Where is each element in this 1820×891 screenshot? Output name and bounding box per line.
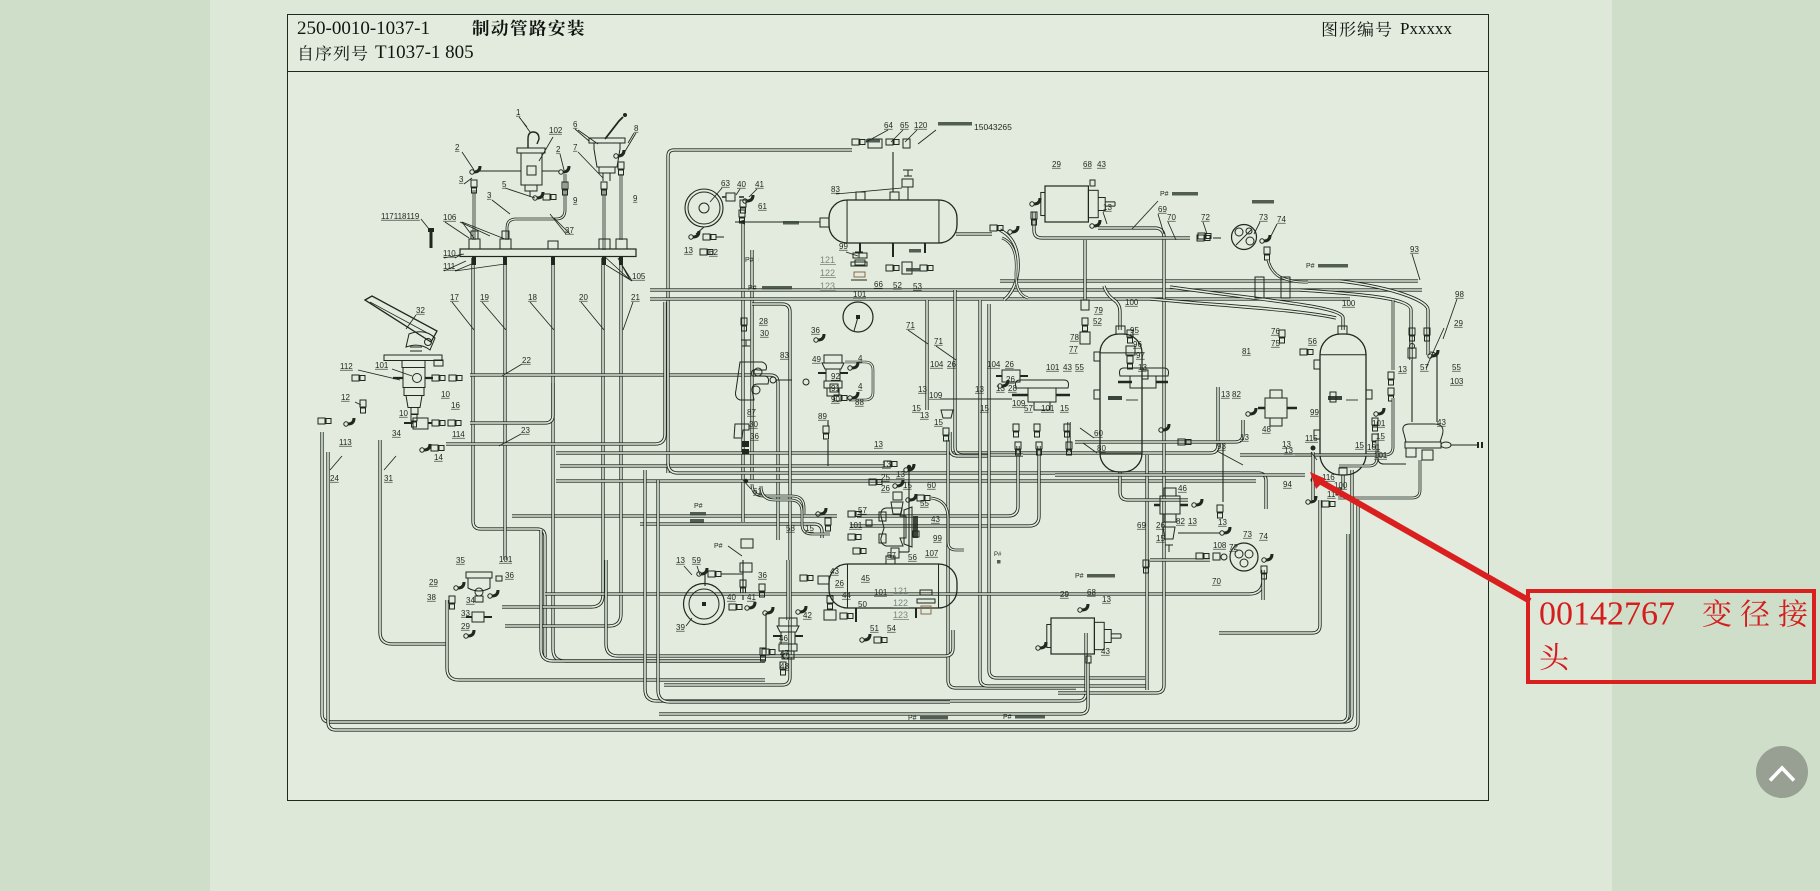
pipe low h2 bbox=[541, 530, 765, 661]
protection valve 92 cluster bbox=[824, 355, 842, 363]
pipe right h3 bbox=[650, 297, 1350, 300]
leader 112 101 bbox=[355, 369, 412, 405]
elbow 13 82 bbox=[1250, 408, 1256, 414]
pipe 108 runs bbox=[1150, 558, 1210, 561]
foot brake valve 32 pedal bbox=[365, 296, 437, 342]
pipe 23 run bbox=[446, 302, 665, 444]
tee valve 26 bbox=[891, 502, 903, 514]
pipe 72 h bbox=[1197, 235, 1204, 241]
pipe below valve 55 bbox=[1338, 460, 1420, 498]
hand valve 6 body bbox=[589, 138, 625, 143]
vertical tank B bbox=[1320, 334, 1366, 475]
vertical tank A bbox=[1100, 334, 1142, 472]
pipe 71b bbox=[955, 290, 1023, 455]
valve 34 bbox=[413, 418, 428, 429]
fitting 8 bbox=[618, 150, 624, 156]
annotation texts bbox=[938, 122, 972, 126]
manifold stubs 111 bbox=[474, 257, 621, 265]
fitting 38 bbox=[449, 596, 455, 603]
content column background bbox=[210, 0, 1612, 891]
pipe 60 curve bbox=[931, 498, 964, 550]
fitting 51 54 bbox=[864, 634, 870, 640]
fitting 43 top bbox=[1090, 180, 1095, 186]
title text 制动管路安装 bbox=[473, 20, 585, 37]
fitting 74 low bbox=[1266, 554, 1272, 560]
gauge 39 stub bbox=[704, 574, 706, 586]
items 121 122 123 low bbox=[920, 590, 932, 595]
fitting 64 65 120 bbox=[852, 139, 859, 145]
pipe bottom pair bbox=[330, 534, 1348, 722]
gauge 73 low bbox=[1230, 543, 1258, 571]
pipe low h4 bbox=[645, 470, 1086, 701]
fitting 74 top bbox=[1264, 235, 1270, 241]
figure label 图形编号 bbox=[1323, 21, 1391, 37]
label leader lines bbox=[330, 117, 1457, 626]
fitting 28 30 top bbox=[741, 318, 747, 325]
pipe tankA bottom out bbox=[1120, 472, 1188, 500]
manifold bar 110 bbox=[460, 249, 636, 257]
fitting 16 bbox=[432, 420, 439, 426]
fitting 40 41 bbox=[726, 193, 735, 201]
tank A label bbox=[1108, 396, 1122, 400]
items 121 122 123 bbox=[855, 252, 863, 258]
tank top ports bbox=[856, 192, 865, 200]
pipe tankB top bbox=[1170, 287, 1343, 330]
pipe 70 run bbox=[545, 580, 1263, 594]
elbow 14 bbox=[424, 444, 430, 450]
pipe 19 drop bbox=[503, 258, 506, 560]
pipe 93 right bbox=[1240, 453, 1385, 456]
foot brake valve 32 body bbox=[384, 355, 442, 361]
pipe from hand valve 3 down-left bbox=[473, 190, 476, 240]
pipe right h1 bbox=[1000, 279, 1418, 282]
fitting 4b bbox=[852, 392, 858, 398]
relay valve cluster mid bbox=[1120, 368, 1169, 376]
fitting 89 bbox=[823, 426, 829, 433]
fitting 113 bbox=[348, 418, 354, 424]
fitting 101 43 bbox=[866, 520, 872, 526]
gauge 101 stub bbox=[854, 317, 858, 331]
pipes cluster left curves bbox=[752, 484, 804, 514]
tank 50 left port bbox=[818, 576, 829, 584]
fitting row 25 26 bbox=[869, 479, 876, 485]
fitting 56 mid bbox=[1300, 349, 1307, 355]
manifold fitting d bbox=[599, 239, 610, 249]
hill holder valve 55 bbox=[881, 508, 906, 546]
fitting 58 15 bbox=[825, 518, 831, 525]
red annotation leader line bbox=[1316, 479, 1530, 601]
fitting 95 96 97 bbox=[1127, 330, 1133, 337]
fitting 114 bbox=[448, 420, 455, 426]
relay valve cluster right bbox=[1403, 424, 1443, 442]
pipe 71a bbox=[925, 300, 928, 410]
fitting 2 left bbox=[474, 166, 480, 172]
pipe 9b bbox=[620, 174, 623, 240]
fitting row 13 upper bbox=[884, 461, 891, 467]
tank bottom stubs bbox=[860, 243, 925, 257]
tank B label bbox=[1328, 396, 1342, 400]
red annotation text CJK line2 bbox=[1540, 643, 1567, 670]
gauge 73 top bbox=[1232, 225, 1257, 250]
pipe right h2 bbox=[650, 288, 1422, 291]
fitting 13 motor bbox=[1094, 220, 1100, 226]
fitting 103 bbox=[1441, 442, 1451, 448]
fitting 36 filter bbox=[492, 590, 498, 596]
pipe 13 vertical bbox=[908, 472, 910, 552]
gauge stub 63 bbox=[696, 227, 704, 234]
fitting 7 bbox=[601, 182, 607, 189]
pipe mid h4 bbox=[556, 479, 1256, 482]
fitting 76 75 bbox=[1279, 330, 1285, 337]
fitting 45 bbox=[800, 575, 807, 581]
fitting 43 26 44 bbox=[827, 596, 833, 603]
motor 68 low bbox=[1051, 618, 1094, 654]
pipe motor68 low drain bbox=[659, 662, 1088, 714]
fitting 11 100 bbox=[1310, 496, 1316, 502]
pipe low h3 bbox=[606, 560, 953, 656]
pipe 67 flex bbox=[1002, 238, 1028, 298]
fitting 84 66 67 bbox=[990, 225, 997, 231]
pipe gauge73b down bbox=[1261, 570, 1264, 600]
pipe 22 run bbox=[470, 375, 778, 540]
fitting 104 26 bbox=[0, 0, 1, 1]
pipe left bundle ends bbox=[742, 560, 744, 600]
pipe mid h3 bbox=[668, 463, 1266, 509]
pipe 24 long loop bbox=[322, 432, 1352, 722]
gauge 39 bbox=[684, 584, 725, 625]
fitting 90 91 bbox=[834, 395, 841, 401]
red annotation text CJK line1 bbox=[1703, 599, 1807, 627]
pipe 18 drop bbox=[553, 258, 765, 661]
pipe 116 down bbox=[1219, 500, 1320, 633]
scroll button chevron bbox=[1770, 768, 1794, 781]
fitting 10b bbox=[411, 414, 417, 421]
filter valve 35 bbox=[466, 572, 492, 578]
tank B port top bbox=[1338, 326, 1347, 334]
valve 55 103 right bbox=[1378, 444, 1406, 464]
manifold fitting e bbox=[616, 239, 627, 249]
air tank 50 bbox=[829, 564, 957, 608]
fitting 99 group bbox=[853, 253, 867, 258]
pipe mid h1 bbox=[556, 387, 1218, 453]
pipe 31 loop bbox=[380, 440, 447, 644]
fitting 115 116 bbox=[1311, 446, 1316, 451]
fitting 47 bbox=[783, 653, 789, 659]
gauge 63 bbox=[685, 189, 723, 227]
fitting 72 top bbox=[1198, 233, 1205, 239]
bracket 87 low bbox=[734, 424, 749, 438]
bolt 117 bbox=[428, 228, 434, 232]
manifold fitting 106b bbox=[500, 239, 511, 249]
gauge 101 top bbox=[843, 302, 873, 332]
fitting 12 bbox=[360, 400, 366, 407]
fitting 10a bbox=[432, 375, 439, 381]
pipe right v1 bbox=[948, 440, 1076, 688]
elbow 36 top bbox=[818, 334, 824, 340]
pipe 65 drop bbox=[892, 152, 894, 192]
pipe mid v 788 bbox=[664, 304, 790, 685]
manifold fitting c bbox=[548, 241, 558, 249]
valve 34 33 29 bbox=[472, 612, 484, 622]
pipe 46 drop bbox=[786, 560, 789, 620]
valve 46 82 low bbox=[1160, 496, 1180, 514]
fitting 14b bbox=[431, 445, 438, 451]
pipe 9a bbox=[603, 190, 606, 250]
fitting 3 stack left bbox=[471, 180, 477, 187]
fitting row 15 60 bbox=[910, 494, 916, 500]
fitting 112 bbox=[352, 375, 359, 381]
scroll-to-top button bbox=[1756, 746, 1808, 798]
fitting 81 bbox=[1330, 392, 1336, 402]
pipe v 1167 bbox=[1058, 302, 1164, 693]
fitting 53 bbox=[920, 265, 927, 271]
pipe low h1 bbox=[447, 600, 765, 680]
serial label 自序列号 bbox=[300, 45, 367, 61]
fitting 13 low bbox=[1082, 604, 1088, 610]
fitting 52 79 bbox=[1081, 300, 1089, 310]
pipe mid h2 bbox=[560, 464, 884, 467]
pipe right 98 v bbox=[1340, 281, 1428, 355]
manifold fitting 106a bbox=[469, 239, 480, 249]
air tank 63 top bbox=[829, 200, 957, 243]
pipe left feeds 101 bbox=[1392, 300, 1395, 370]
fitting 78 77 bbox=[1082, 318, 1088, 325]
fitting 62 bbox=[700, 249, 707, 255]
relay valve cluster left bbox=[1016, 380, 1069, 388]
drain valve 5 bbox=[537, 192, 543, 198]
valve 83 on tank bbox=[902, 179, 913, 187]
fitting 29 top bbox=[1034, 198, 1040, 204]
motor 68 top bbox=[1045, 186, 1088, 222]
fitting 26 15 low bbox=[1163, 527, 1175, 539]
fittings left relay bbox=[1013, 424, 1019, 431]
fitting 101 filter bbox=[496, 576, 502, 581]
fitting 48 bbox=[780, 662, 786, 669]
valve 82 46 bottom mid bbox=[1265, 398, 1287, 418]
hand control valve 1 bbox=[528, 132, 539, 148]
tank A port top bbox=[1116, 326, 1125, 334]
pipe top long 64 bbox=[668, 150, 852, 473]
pipe 69 drop bbox=[1145, 455, 1148, 690]
pipe 20 drop bbox=[502, 258, 603, 607]
fitting 43 low bbox=[1086, 656, 1091, 663]
tank left port bbox=[820, 218, 829, 227]
fitting 4a bbox=[852, 362, 858, 368]
tank 50 ports bbox=[886, 556, 895, 564]
fitting 61 bbox=[740, 200, 746, 207]
pipe clamp sleeves bbox=[1255, 277, 1264, 298]
pipe 61 left bundle a bbox=[741, 222, 744, 522]
fitting 83b bbox=[770, 377, 776, 383]
fitting 49 bbox=[803, 379, 809, 385]
fitting 2 right bbox=[563, 166, 569, 172]
fitting 13 mid low bbox=[1196, 499, 1202, 505]
pipe 21 drop bbox=[505, 258, 621, 626]
valve 104 26 bbox=[1002, 370, 1020, 382]
fitting 66 52 bbox=[886, 265, 893, 271]
fitting 29 filter bbox=[458, 582, 464, 588]
fitting 40 41 low bbox=[729, 604, 736, 610]
pipe tankB bottom out bbox=[1341, 475, 1344, 489]
fitting 108 72 bbox=[1196, 553, 1203, 559]
pipe 67 curve bbox=[1000, 230, 1018, 300]
pipe 5 to manifold S bbox=[507, 174, 565, 240]
fitting 3 stack right bbox=[562, 182, 568, 189]
hand valve 6 lever bbox=[605, 117, 623, 139]
drawing frame bbox=[287, 14, 1489, 801]
tank B side ports bbox=[1314, 360, 1320, 369]
red annotation box bbox=[1526, 589, 1816, 684]
pipe right valve feeds bbox=[1411, 360, 1413, 422]
pipe 17 manifold drop bbox=[473, 258, 545, 657]
pipe right top v bbox=[1300, 290, 1411, 360]
pipe motor top feed bbox=[956, 232, 992, 235]
tank A side ports bbox=[1094, 352, 1100, 361]
pipe 69 70 from motor bbox=[1098, 228, 1164, 302]
fitting rows low bbox=[848, 511, 855, 517]
pipe 11 drop bbox=[1311, 452, 1314, 500]
pipe 79 drop bbox=[1083, 240, 1086, 300]
pipe right v2 bbox=[980, 300, 1148, 686]
fitting 42 bbox=[800, 606, 806, 612]
bracket 83 87 bbox=[736, 362, 769, 400]
protection valve 46 low bbox=[779, 618, 797, 626]
title: drawing number bbox=[297, 18, 430, 40]
pipe 88 loop bbox=[845, 362, 873, 400]
pipe tankA top bbox=[1104, 286, 1120, 330]
fitting stacks 57 29 bbox=[1409, 328, 1415, 335]
fitting 29 low bbox=[1040, 642, 1046, 648]
